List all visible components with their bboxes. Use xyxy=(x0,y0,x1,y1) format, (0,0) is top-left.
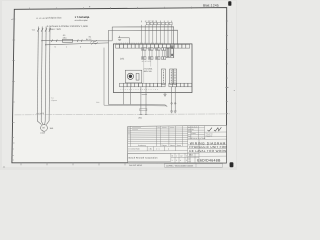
wire drop to motor feed m2 xyxy=(145,87,148,115)
terminal number texture top row xyxy=(117,42,163,45)
footer strip below frame xyxy=(129,164,193,167)
lower-left info text xyxy=(128,148,169,151)
wire drop s2 xyxy=(174,87,176,111)
svg-text:400V 24V: 400V 24V xyxy=(144,70,153,73)
revision header text xyxy=(138,144,182,147)
power line L3 xyxy=(44,27,47,122)
maker name text xyxy=(129,156,159,159)
lower-left info row xyxy=(128,146,188,153)
relay 2K0 tall block xyxy=(171,46,173,58)
link wire under box xyxy=(142,94,147,96)
connector drop wires into box xyxy=(141,25,171,44)
label X1 xyxy=(86,36,92,41)
label F1 xyxy=(63,34,68,39)
wire drop to motor feed m1 xyxy=(140,87,143,115)
svg-text:U V W PE: U V W PE xyxy=(36,112,44,115)
drawing number left cells xyxy=(188,158,190,164)
riser wire A up and over xyxy=(112,27,174,44)
node tap B xyxy=(45,44,46,45)
signature squiggle xyxy=(208,127,222,131)
sheet cells right of maker xyxy=(171,139,199,162)
contactor 2K3 block xyxy=(174,69,177,84)
cable break X1 squiggle xyxy=(91,40,98,45)
contactor 2K1 block xyxy=(161,69,165,84)
svg-text:AMP984 / E6D/D4648B 04/2005: AMP984 / E6D/D4648B 04/2005 xyxy=(166,164,193,167)
svg-text:4: 4 xyxy=(180,159,181,162)
svg-text:1 Bl.: 1 Bl. xyxy=(149,148,153,151)
note text: schaltplan blatt xyxy=(47,17,62,20)
wire drop s1 xyxy=(171,87,173,111)
motor 1M1 circle xyxy=(41,125,48,133)
frame zone ticks right edge xyxy=(226,21,229,113)
control box 2A1 outline xyxy=(113,44,192,93)
boundary dash line across sheet xyxy=(15,114,231,115)
node tap A xyxy=(41,40,42,41)
motor note below xyxy=(40,132,45,135)
wire B: control feed lower xyxy=(46,43,109,45)
contact ticks on wire A xyxy=(52,39,83,42)
svg-text:1,5qmm: 1,5qmm xyxy=(51,99,58,102)
svg-text:2A1: 2A1 xyxy=(120,57,125,60)
maker name box xyxy=(128,153,171,161)
cable spec label xyxy=(51,97,58,102)
fuse group bodies xyxy=(143,50,165,56)
power line L1 xyxy=(37,27,38,122)
fuse F1 block on wire A xyxy=(63,39,73,42)
svg-text:1,5kW: 1,5kW xyxy=(40,132,45,135)
svg-text:BK 1,5: BK 1,5 xyxy=(86,38,91,41)
junction bead s2 xyxy=(174,103,176,105)
svg-text:Name: Name xyxy=(170,144,175,147)
title row 4 xyxy=(189,154,194,157)
motor leads converge xyxy=(37,121,49,125)
cable connector on motor feed xyxy=(140,109,147,111)
svg-text:E-Schrank 3 AC50Hz 230/400V: E-Schrank 3 AC50Hz 230/400V 1,5kW xyxy=(47,25,89,28)
enclosure bottom line xyxy=(104,104,167,107)
drawing number xyxy=(197,158,221,162)
frame zone ticks top edge xyxy=(30,7,192,10)
right section small rows xyxy=(188,126,227,140)
phase labels xyxy=(36,17,48,20)
wire drop t1 xyxy=(123,87,125,105)
label 2A1 xyxy=(120,57,125,60)
drop wire to bottom bus xyxy=(108,43,110,105)
ground under drop s1 xyxy=(170,111,173,113)
footer strip box xyxy=(165,164,223,168)
riser wire B up and over xyxy=(109,30,178,44)
label 2T1 xyxy=(144,67,153,72)
title row divider xyxy=(188,145,227,157)
svg-text:schaltplan blatt: schaltplan blatt xyxy=(47,17,62,20)
svg-text:2: 2 xyxy=(80,46,81,49)
title row 2 xyxy=(189,145,227,149)
label 2W1 xyxy=(96,101,100,104)
svg-text:1/2: 1/2 xyxy=(188,160,190,163)
terminal number texture bottom row xyxy=(121,88,159,91)
svg-text:Änderung: Änderung xyxy=(138,144,146,147)
note text: E-Schrank line xyxy=(47,25,89,31)
connector row above box xyxy=(146,22,172,25)
fuse group 2F2 xyxy=(149,48,153,60)
bottom bus wire with arrow xyxy=(109,104,168,106)
scan mark bottom right corner xyxy=(230,162,234,167)
svg-text:DE LAVAL TOO WOON: DE LAVAL TOO WOON xyxy=(189,149,226,153)
label under wire B xyxy=(55,46,82,49)
fuse group 2F3 xyxy=(156,48,160,60)
right section row labels xyxy=(188,126,197,138)
svg-text:1: 1 xyxy=(172,159,173,162)
fuse group 2F4 xyxy=(161,48,165,60)
wire A: control feed upper xyxy=(42,40,112,42)
border frame xyxy=(12,8,227,163)
revision cell marks xyxy=(128,127,174,133)
svg-text:5: 5 xyxy=(186,159,187,162)
revision table rows xyxy=(128,128,188,147)
contactor 2K2 block xyxy=(170,69,173,84)
PE bar inside box xyxy=(118,36,129,44)
svg-text:E6D/D4648B: E6D/D4648B xyxy=(197,158,221,162)
terminal labels U V W xyxy=(36,112,44,115)
transformer 2T1 box xyxy=(125,70,142,83)
bottom terminal row left xyxy=(120,83,166,87)
junction bead s1 xyxy=(171,103,173,105)
power line L2 xyxy=(41,27,42,122)
wire stub into box right xyxy=(173,48,175,58)
svg-text:Norm: Norm xyxy=(177,144,182,147)
svg-text:1: 1 xyxy=(176,154,177,157)
bottom terminal row right xyxy=(169,83,192,87)
label 2M1 xyxy=(138,116,143,119)
label Q1 xyxy=(32,29,36,32)
svg-text:DIN ISO 16016: DIN ISO 16016 xyxy=(129,164,142,167)
ground symbol on PE bar xyxy=(118,39,121,42)
labels under fuse groups xyxy=(142,60,151,63)
svg-text:1: 1 xyxy=(66,46,67,49)
wires from fuse groups to bottom terminals xyxy=(144,60,158,84)
svg-text:2: 2 xyxy=(186,154,187,157)
scan mark top right corner xyxy=(228,1,231,6)
svg-text:1 T-Schaltpl.: 1 T-Schaltpl. xyxy=(75,16,91,19)
svg-text:1 : 1: 1 : 1 xyxy=(156,148,160,151)
sheet number note top right xyxy=(203,3,219,7)
ground under drop s2 xyxy=(174,111,177,113)
wire drop t2 xyxy=(130,87,132,105)
svg-text:Blatt : 1 2 4 5: Blatt : 1 2 4 5 xyxy=(203,3,219,7)
power line PE xyxy=(48,27,51,122)
label 1M1 xyxy=(50,127,55,130)
terminal strip with pins xyxy=(166,48,170,58)
approval cell text xyxy=(206,133,213,138)
revision table columns xyxy=(130,126,187,163)
frame zone ticks left edge xyxy=(12,19,16,160)
title block xyxy=(128,125,227,163)
svg-text:Bosch Rexroth Corporation: Bosch Rexroth Corporation xyxy=(129,156,159,159)
title row 1 xyxy=(190,141,226,145)
svg-text:2: 2 xyxy=(176,159,177,162)
connector stubs up xyxy=(141,21,171,23)
svg-text:L1 L2 L3 PE: L1 L2 L3 PE xyxy=(36,17,48,20)
svg-text:D-72160 Horb: D-72160 Horb xyxy=(128,148,139,151)
svg-text:M: M xyxy=(43,127,45,130)
svg-text:2W1: 2W1 xyxy=(96,101,100,104)
sheet background xyxy=(0,0,237,170)
connector pin labels xyxy=(147,20,157,23)
frame zone ticks bottom edge xyxy=(21,163,125,166)
note text block: montage xyxy=(75,16,91,22)
svg-text:anschlussplan: anschlussplan xyxy=(75,19,89,22)
top terminal row xyxy=(116,44,190,48)
ground at box bottom xyxy=(163,93,166,97)
svg-text:Datum: Datum xyxy=(162,144,168,147)
sheet cell texts xyxy=(172,154,187,162)
enclosure boundary left xyxy=(103,48,105,106)
scan specks xyxy=(3,6,235,167)
svg-text:von: von xyxy=(180,155,183,157)
transformer 2T1 winding xyxy=(127,73,139,80)
address row text xyxy=(188,137,205,140)
fuse Q1 slashes xyxy=(37,28,51,31)
fuse group 2F1 xyxy=(142,48,146,60)
svg-text:4: 4 xyxy=(168,148,169,151)
title row 3 xyxy=(189,149,226,153)
